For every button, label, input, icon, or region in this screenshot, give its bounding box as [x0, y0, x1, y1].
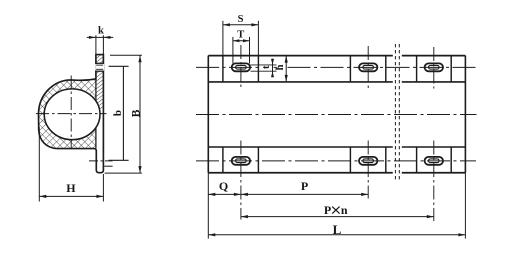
flange bottom slot center line — [89, 160, 113, 162]
body left edge — [207, 56, 209, 173]
dimension T — [233, 29, 250, 63]
slots: obrounds top row — [232, 63, 443, 71]
svg-text:k: k — [98, 26, 104, 37]
dimension Q and P — [208, 179, 368, 196]
dimension S — [223, 14, 259, 55]
svg-text:H: H — [66, 181, 76, 195]
body outline — [208, 56, 465, 173]
dimension L — [208, 222, 465, 237]
flange slot section band — [95, 64, 104, 71]
svg-text:T: T — [237, 29, 244, 40]
dimension h — [275, 56, 288, 82]
slot center lines vertical — [241, 45, 434, 221]
svg-text:L: L — [333, 222, 342, 237]
slots: obrounds bottom row — [232, 157, 443, 165]
rail inner horizontal edges — [208, 82, 465, 147]
svg-text:t: t — [261, 65, 272, 69]
svg-text:S: S — [238, 14, 244, 25]
dimension P×n — [241, 203, 434, 218]
svg-text:Q: Q — [219, 179, 228, 193]
dimension H — [39, 127, 103, 202]
dimension b — [109, 66, 129, 160]
svg-text:P: P — [301, 179, 308, 193]
ring cross-hatch — [30, 66, 96, 156]
right edge extension — [464, 173, 466, 239]
dimension t — [251, 59, 277, 78]
svg-text:h: h — [275, 64, 286, 70]
svg-text:b: b — [112, 110, 124, 116]
left edge extension — [207, 173, 209, 239]
housing outline — [39, 55, 104, 173]
row center lines horizontal — [196, 67, 477, 161]
break lines — [395, 44, 399, 181]
svg-text:P: P — [324, 203, 331, 217]
center line vertical — [70, 76, 72, 149]
body right edge — [464, 56, 466, 173]
bore circle — [44, 89, 100, 140]
svg-text:n: n — [341, 203, 348, 217]
flange strip hatch upper — [96, 55, 104, 110]
flange bottom slot edge extension — [104, 165, 112, 167]
rail segment verticals — [223, 56, 451, 173]
center line horizontal — [36, 113, 107, 115]
dimension k — [87, 26, 114, 55]
svg-text:B: B — [130, 109, 142, 117]
flange inner edge — [95, 79, 97, 148]
dimension B — [105, 55, 143, 173]
